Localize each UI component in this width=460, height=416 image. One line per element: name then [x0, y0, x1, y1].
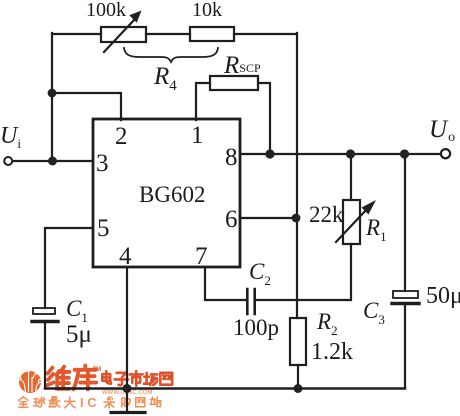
svg-text:5μ: 5μ: [66, 321, 92, 348]
svg-text:7: 7: [195, 243, 208, 270]
wire C3 branch top: [404, 154, 406, 291]
watermark text weiku: [47, 366, 96, 390]
wire R1 top stub: [350, 154, 352, 200]
wire from 10k to right drop: [234, 33, 297, 35]
svg-text:4: 4: [119, 243, 132, 270]
junction dot input node: [48, 157, 57, 166]
svg-text:50μ: 50μ: [426, 283, 460, 309]
svg-text:100p: 100p: [233, 315, 279, 340]
svg-text:R4: R4: [153, 63, 177, 94]
wire R1 bottom: [256, 244, 351, 300]
potentiometer arrow on 100k: [104, 20, 134, 52]
output terminal Uo circle: [441, 149, 450, 158]
svg-text:22k: 22k: [309, 202, 344, 227]
wire RSCP left to pin 1: [196, 83, 210, 120]
junction dot pin2 branch: [48, 89, 57, 98]
junction dot pin4 on ground rail: [123, 384, 132, 393]
wire left vertical from top rail to input node: [51, 33, 53, 161]
svg-text:10k: 10k: [192, 0, 222, 21]
resistor R4 10k body: [190, 27, 234, 41]
svg-text:100k: 100k: [86, 0, 126, 21]
resistor RSCP body: [210, 76, 258, 90]
junction dot pin 6 node: [292, 214, 301, 223]
rheostat R1 body: [343, 200, 360, 244]
svg-text:5: 5: [97, 215, 110, 242]
svg-text:Ui: Ui: [0, 123, 21, 151]
svg-text:I C: I C: [80, 395, 97, 410]
svg-text:C2: C2: [249, 259, 271, 288]
arrow on R1: [336, 209, 367, 242]
wire pin 8 to output terminal: [240, 153, 441, 155]
junction dot R1 on output line: [346, 149, 355, 158]
capacitor C1 bottom plate: [32, 320, 58, 323]
capacitor C2 plates: [247, 289, 254, 314]
svg-text:R2: R2: [316, 309, 338, 338]
resistor R4 100k body: [101, 27, 146, 42]
svg-text:3: 3: [96, 150, 109, 177]
wire RSCP right to output line: [258, 83, 270, 153]
wire pin 4 down to ground: [126, 267, 128, 412]
arrowhead of R1 rheostat: [362, 200, 377, 215]
capacitor C3 bottom plate: [392, 302, 419, 305]
wire top rail left segment: [52, 33, 101, 35]
wire pin 7 to C2: [205, 267, 246, 300]
junction dot R2 on ground rail: [294, 384, 303, 393]
watermark slogan: [19, 397, 76, 408]
input terminal Ui circle: [4, 157, 12, 165]
wire between 100k and 10k: [146, 33, 190, 35]
wire pin 5 to C1: [45, 228, 93, 308]
wire C3 bottom stub: [404, 305, 406, 388]
svg-text:C3: C3: [363, 298, 385, 327]
arrowhead of 100k potentiometer: [129, 11, 141, 23]
ground bar: [111, 411, 145, 414]
junction dot RSCP on output line: [265, 149, 274, 158]
svg-text:BG602: BG602: [139, 182, 205, 207]
watermark logo circle: [19, 371, 41, 393]
wire right vertical drop (10k to R2): [296, 33, 298, 318]
svg-text:RSCP: RSCP: [223, 52, 261, 79]
op-amp IC BG602 box: [93, 119, 240, 267]
svg-text:1: 1: [191, 122, 204, 149]
junction dot C3 on output line: [400, 149, 409, 158]
watermark text dianzishichangwang: [102, 371, 172, 386]
svg-text:Uo: Uo: [429, 116, 455, 145]
watermark logo traces: [18, 365, 42, 392]
brace for R4: [124, 48, 218, 62]
capacitor C1 top plate: [33, 308, 55, 314]
resistor R2 body: [290, 318, 306, 365]
wire input to pin 3: [12, 160, 93, 162]
svg-text:6: 6: [225, 206, 238, 233]
wire R2 bottom stub: [297, 365, 299, 388]
svg-text:TM: TM: [93, 367, 102, 373]
capacitor C3 top plate: [393, 291, 418, 298]
wire pin 2 branch: [52, 93, 121, 120]
svg-text:1.2k: 1.2k: [311, 339, 353, 365]
ground rail: [45, 387, 405, 390]
wire pin 6 to right column: [240, 217, 296, 219]
svg-text:R1: R1: [365, 215, 387, 244]
svg-text:2: 2: [115, 123, 128, 150]
wire C1 bottom stub: [44, 323, 46, 388]
svg-text:8: 8: [225, 144, 238, 171]
